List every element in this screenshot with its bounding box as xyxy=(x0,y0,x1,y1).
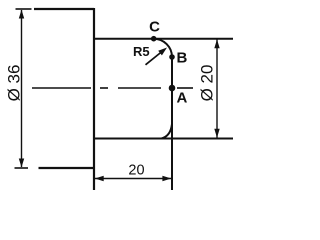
arrow d36 bottom xyxy=(19,159,24,168)
arc fillet bottom xyxy=(162,125,172,139)
svg-text:B: B xyxy=(177,50,188,67)
node C dot xyxy=(151,36,157,42)
wire right end face + extension down xyxy=(171,56,173,190)
wire top edge large cylinder xyxy=(34,8,94,10)
wire bottom edge small cylinder + extension right xyxy=(94,138,233,140)
dimension 20 line xyxy=(95,178,171,180)
svg-text:A: A xyxy=(177,90,188,107)
dimension d20 line xyxy=(216,40,218,139)
svg-text:20: 20 xyxy=(128,163,144,179)
svg-text:Ø 36: Ø 36 xyxy=(5,65,24,102)
arrow 20 left xyxy=(95,176,104,181)
arrow d20 bottom xyxy=(214,129,219,138)
leader R5 arrow xyxy=(146,52,163,65)
dimension d36 extension ticks xyxy=(16,8,32,10)
svg-text:Ø 20: Ø 20 xyxy=(198,65,217,102)
arrow 20 right xyxy=(162,176,171,181)
node A dot xyxy=(169,85,176,92)
dimension d36 line xyxy=(21,10,23,167)
svg-text:C: C xyxy=(149,19,160,36)
wire shoulder vertical + extension down xyxy=(93,8,95,190)
node B dot xyxy=(169,54,175,60)
wire top edge small cylinder + extension right xyxy=(94,38,233,40)
centerline xyxy=(32,87,193,89)
arrow d36 top xyxy=(19,10,24,19)
arc R5 fillet top xyxy=(154,39,172,57)
arrow d20 top xyxy=(214,39,219,48)
svg-text:R5: R5 xyxy=(133,44,150,59)
wire bottom edge large cylinder xyxy=(39,167,95,169)
